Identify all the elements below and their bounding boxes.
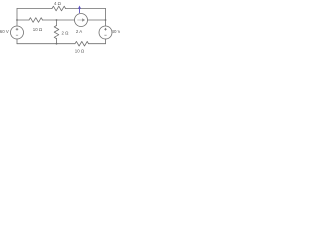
wire bottom-left vertical stub — [16, 39, 18, 44]
wire bottom horizontal right — [89, 43, 106, 45]
polarity plus of V2 — [104, 28, 107, 31]
current source CS1 circle — [75, 14, 88, 27]
resistor R4 10-ohm (bottom) — [75, 41, 88, 46]
wire vertical-branch stub top — [56, 20, 58, 26]
junction node at middle branch bottom — [56, 43, 58, 45]
wire middle-right horizontal — [88, 19, 106, 21]
svg-text:4 Ω: 4 Ω — [54, 1, 62, 6]
voltage source V1 circle (left) — [11, 26, 24, 39]
arrow inside current source CS1 — [78, 19, 85, 21]
wire middle horizontal to current source — [43, 19, 75, 21]
svg-text:60 V: 60 V — [0, 29, 9, 34]
polarity minus of V1 — [16, 34, 18, 36]
wire bottom-right vertical stub — [105, 39, 107, 44]
svg-text:2 Ω: 2 Ω — [62, 31, 70, 36]
wire top-left horizontal — [17, 8, 52, 10]
svg-text:40 V: 40 V — [112, 29, 121, 34]
wire vertical-branch stub bottom — [56, 39, 58, 44]
voltage source V2 circle (right) — [99, 26, 112, 39]
wire top-right horizontal — [66, 8, 106, 10]
polarity minus of V2 — [104, 34, 106, 36]
junction node at middle branch top — [56, 19, 58, 21]
resistor R3 2-ohm (vertical) — [54, 26, 59, 39]
svg-text:10 Ω: 10 Ω — [33, 27, 43, 32]
annotation blue current arrow — [78, 6, 81, 14]
wire bottom horizontal left — [17, 43, 75, 45]
wire left vertical — [16, 9, 18, 27]
junction node at right mid — [105, 19, 107, 21]
svg-text:10 Ω: 10 Ω — [75, 48, 85, 53]
wire middle-left horizontal — [17, 19, 29, 21]
svg-text:2 A: 2 A — [76, 29, 82, 34]
polarity plus of V1 — [16, 28, 19, 31]
resistor R2 10-ohm (middle) — [29, 18, 43, 23]
junction node at left mid — [16, 19, 18, 21]
resistor R1 4-ohm (top) — [52, 6, 66, 11]
wire right vertical — [105, 9, 107, 27]
